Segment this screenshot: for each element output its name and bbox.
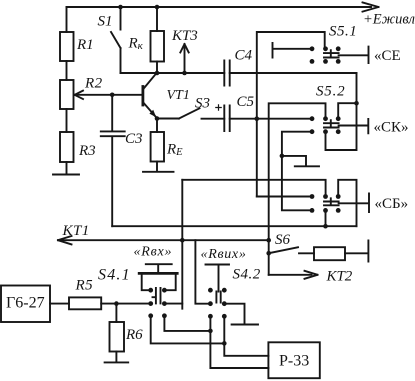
svg-text:C3: C3 xyxy=(125,131,143,147)
svg-text:S1: S1 xyxy=(98,14,113,30)
svg-text:КТ3: КТ3 xyxy=(171,28,198,44)
svg-text:R3: R3 xyxy=(78,143,96,159)
svg-text:C5: C5 xyxy=(237,94,255,110)
svg-text:«СБ»: «СБ» xyxy=(375,196,409,212)
svg-text:C4: C4 xyxy=(235,48,253,64)
svg-text:S5.2: S5.2 xyxy=(316,84,345,100)
svg-text:S5.1: S5.1 xyxy=(329,24,357,40)
svg-text:Р-33: Р-33 xyxy=(279,353,309,370)
svg-text:VT1: VT1 xyxy=(167,88,190,103)
svg-text:RE: RE xyxy=(166,142,183,159)
svg-text:S4.1: S4.1 xyxy=(98,267,131,284)
svg-text:«СЕ: «СЕ xyxy=(374,48,401,64)
svg-text:R5: R5 xyxy=(75,278,94,294)
svg-text:S4.2: S4.2 xyxy=(233,267,261,283)
svg-text:R6: R6 xyxy=(125,327,143,343)
svg-text:R1: R1 xyxy=(76,37,94,53)
svg-text:КТ1: КТ1 xyxy=(62,223,90,239)
svg-text:Rк: Rк xyxy=(128,36,144,53)
svg-text:«Rвих»: «Rвих» xyxy=(201,247,247,262)
svg-text:«СК»: «СК» xyxy=(374,120,409,136)
svg-text:S6: S6 xyxy=(275,232,291,248)
svg-text:S3: S3 xyxy=(195,96,210,112)
svg-text:«Rвх»: «Rвх» xyxy=(134,245,173,260)
svg-text:R2: R2 xyxy=(84,76,103,92)
svg-text:КТ2: КТ2 xyxy=(326,269,353,285)
svg-text:+Еживл.: +Еживл. xyxy=(363,12,415,28)
svg-text:Г6-27: Г6-27 xyxy=(6,295,45,312)
